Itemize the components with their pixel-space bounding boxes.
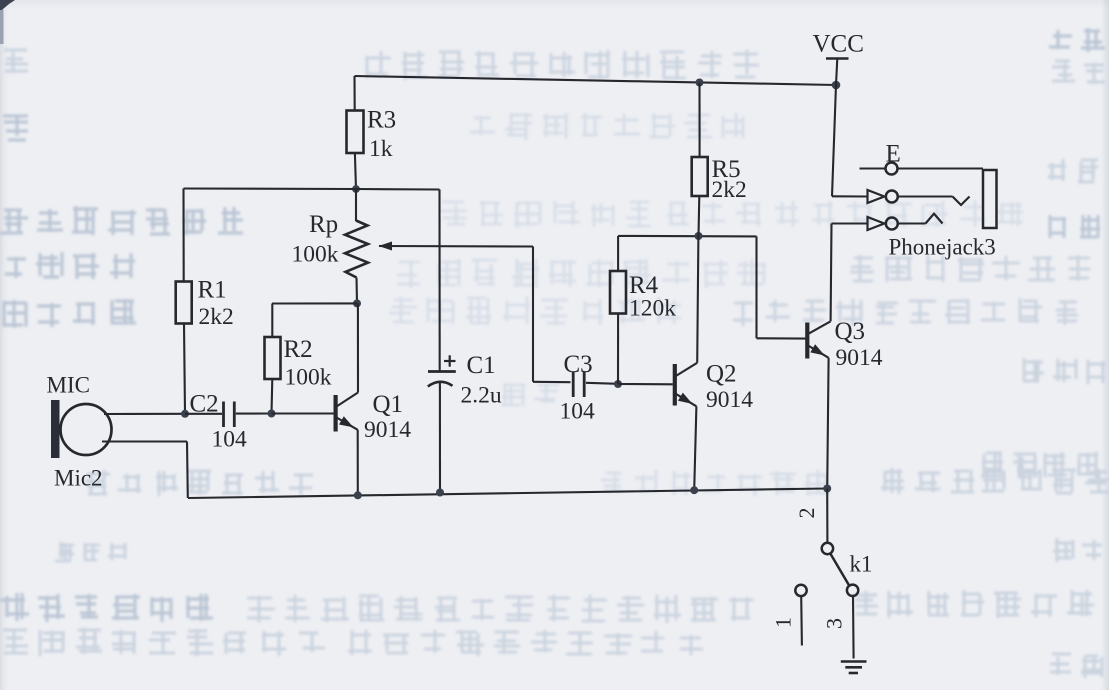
node: C3 / R4 / Q2 base junction (614, 380, 622, 388)
svg-text:MIC: MIC (47, 373, 90, 398)
transistor Q1 9014 (336, 391, 412, 443)
wire: mic bottom lead (102, 440, 187, 442)
wire: top rail to R5 (698, 83, 700, 158)
svg-text:2: 2 (794, 508, 819, 519)
scanner edge artifact top-left (0, 0, 15, 13)
wire: wiper line down to C3 (532, 247, 534, 382)
wire: node A to left column (R1 top) (184, 187, 357, 190)
node: rail / C1 (436, 489, 444, 497)
svg-text:9014: 9014 (836, 345, 883, 371)
svg-text:2.2u: 2.2u (461, 383, 502, 409)
capacitor C3 104 (560, 351, 596, 425)
wire: Q1 emitter to ground rail (357, 430, 359, 496)
node: mic / R1 / C2 junction (181, 410, 189, 418)
wire: switch pin 3 to ground (852, 596, 855, 658)
node: top rail / R5 junction (696, 79, 704, 87)
resistor R2 (265, 336, 332, 391)
wire: VCC top rail (355, 76, 837, 85)
resistor R3 (347, 107, 397, 163)
potentiometer Rp 100k (292, 211, 369, 278)
svg-text:100k: 100k (285, 365, 332, 391)
wire: R4 bottom to Q2 base node (617, 314, 619, 385)
capacitor C2 104 (190, 391, 248, 453)
node: rail / switch k1 (823, 485, 831, 493)
svg-text:100k: 100k (292, 242, 339, 268)
svg-text:120k: 120k (629, 296, 676, 322)
svg-text:k1: k1 (850, 552, 873, 577)
svg-text:Q3: Q3 (835, 318, 866, 345)
wire: VCC drop to phone jack contact 2 (832, 85, 836, 196)
wire: C3 to Q2 base node (586, 383, 618, 384)
wire: mic top to C2 (104, 413, 185, 415)
svg-text:C1: C1 (467, 352, 496, 379)
power VCC (813, 31, 864, 86)
node: rail / Q1 emitter (354, 491, 362, 499)
ground (841, 662, 867, 674)
wire: Q3 emitter down to switch node (827, 358, 828, 489)
svg-text:9014: 9014 (364, 417, 411, 443)
transistor Q3 9014 (807, 318, 882, 371)
svg-text:R1: R1 (198, 277, 227, 304)
wire: Q3 collector up to phone jack contact 3 (830, 224, 833, 322)
wire: node B to R2 top (272, 302, 357, 304)
wire: Q2 base wire (618, 383, 673, 385)
wire: ground rail (188, 489, 827, 499)
switch k1 (822, 543, 873, 596)
phone jack connector Phonejack3 (860, 141, 997, 260)
node: top rail / VCC junction (832, 81, 841, 90)
wire: node C to Q3 base (755, 236, 757, 338)
svg-text:2k2: 2k2 (712, 177, 747, 203)
wire: down to R1 (182, 189, 184, 282)
svg-text:104: 104 (212, 427, 248, 453)
wire: Q2 collector up to node C (697, 236, 698, 363)
svg-text:3: 3 (822, 618, 847, 629)
svg-text:1: 1 (771, 617, 796, 628)
node C: R5 / R4 / Q2 collector junction (695, 232, 703, 240)
wire: node A to C1 top (356, 188, 440, 191)
wire: Rp bottom to node B (355, 278, 358, 304)
wiper arrow of Rp (379, 242, 534, 251)
svg-text:VCC: VCC (813, 31, 864, 58)
node B: Rp / R2 / Q1 collector junction (353, 299, 361, 307)
svg-text:Q2: Q2 (706, 361, 737, 388)
svg-text:Rp: Rp (309, 211, 338, 238)
svg-text:Q1: Q1 (373, 391, 404, 418)
wire: R1 to C2 node (184, 324, 185, 414)
svg-text:2k2: 2k2 (199, 304, 234, 330)
svg-text:Phonejack3: Phonejack3 (889, 235, 996, 260)
node: C2 / R2 / Q1 base junction (268, 410, 276, 418)
wire: rail to switch pin 2 (826, 489, 828, 543)
wire: node A wire down to C1 (438, 190, 440, 372)
wire: node to Q1 base (272, 412, 334, 414)
wire: node to C2 (185, 413, 222, 415)
wire: C1 to ground rail (439, 382, 441, 493)
svg-text:R2: R2 (284, 336, 313, 363)
microphone MIC / Mic2 (47, 373, 112, 491)
svg-text:C3: C3 (564, 351, 593, 378)
transistor Q2 9014 (675, 361, 753, 414)
resistor R4 (610, 271, 676, 322)
switch pin 1 stub (795, 585, 806, 646)
wire: R3 to node A (355, 154, 356, 190)
wire: Q1 collector to node B (357, 303, 359, 392)
node A: R3 bottom junction (352, 185, 360, 193)
wire: Q2 emitter to ground rail (694, 406, 696, 490)
resistor R1 (176, 277, 234, 331)
wire: node A to Rp (355, 189, 357, 221)
svg-text:1k: 1k (369, 136, 393, 162)
resistor R5 (692, 156, 747, 203)
svg-text:9014: 9014 (706, 387, 753, 413)
wire: R4 top to node C (617, 236, 619, 271)
capacitor C1 2.2u (electrolytic) (428, 352, 502, 409)
node: rail / Q2 emitter (690, 486, 698, 494)
wire: C2 to R2 node (236, 412, 272, 414)
svg-text:104: 104 (560, 399, 596, 425)
wire: R5 bottom to node C (697, 196, 700, 236)
svg-text:Mic2: Mic2 (54, 466, 103, 491)
wire: R2 bottom to C2 right node (270, 379, 273, 414)
svg-text:R3: R3 (367, 107, 396, 134)
wire: top rail to R3 (353, 76, 355, 111)
